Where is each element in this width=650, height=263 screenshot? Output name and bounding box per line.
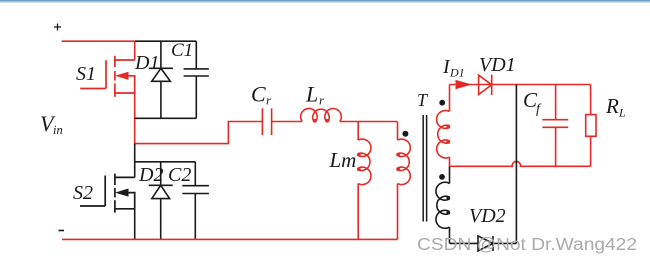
svg-text:D1: D1 [134, 52, 159, 74]
svg-text:Lm: Lm [329, 148, 357, 172]
wire Cr to Lr [272, 121, 303, 123]
wire S1 source to midpoint node [134, 93, 136, 144]
wire Lr to primary [340, 121, 398, 123]
svg-text:VD2: VD2 [469, 205, 506, 227]
transistor S2 [80, 174, 135, 213]
svg-text:CSDN @Not Dr.Wang422: CSDN @Not Dr.Wang422 [417, 234, 637, 254]
svg-text:C1: C1 [171, 40, 193, 61]
transformer T secondary bottom polarity dot [439, 174, 445, 180]
svg-text:C2: C2 [168, 164, 191, 186]
resistor RL [586, 85, 596, 167]
wire center tap rail with crossover hop [450, 161, 591, 166]
wire S1 drain [134, 41, 136, 60]
wire VD2 cathode riser [515, 85, 517, 244]
wire D1/C1 bottom bar [135, 117, 197, 119]
diode D1 [149, 41, 173, 118]
label Vin [40, 111, 63, 137]
wire bottom rail red [62, 238, 398, 240]
transformer T primary polarity dot [402, 131, 408, 137]
capacitor Cf [542, 85, 568, 167]
transformer T core [423, 115, 426, 222]
transformer T secondary top polarity dot [439, 100, 445, 106]
label ID1 [442, 56, 465, 80]
label Cf [523, 88, 542, 117]
node + (positive input terminal) [54, 24, 61, 31]
svg-text:C: C [251, 82, 266, 107]
capacitor C1 [184, 41, 209, 118]
svg-text:L: L [305, 82, 318, 107]
svg-text:S1: S1 [76, 63, 96, 85]
wire S2 source to bottom rail [134, 209, 136, 240]
node - (negative input terminal) [59, 230, 65, 232]
svg-text:D2: D2 [138, 164, 163, 186]
wire VD2 bottom [450, 242, 479, 244]
capacitor C2 [182, 162, 209, 240]
capacitor Cr [262, 108, 271, 135]
wire top rail black (to D1/C1) [135, 40, 197, 42]
inductor Lr [301, 108, 342, 122]
diode D2 [149, 162, 173, 240]
wire top rail red (+ to S1 drain branch) [62, 40, 135, 42]
svg-text:in: in [53, 123, 63, 137]
diode VD2 [478, 236, 516, 251]
transformer T primary winding [396, 122, 410, 240]
label Cr [251, 82, 272, 108]
transformer T secondary bottom winding [436, 166, 450, 243]
label Lr [305, 82, 325, 108]
transistor S1 [80, 56, 135, 97]
label RL [605, 94, 626, 120]
svg-text:D1: D1 [449, 66, 465, 80]
wire midpoint node to resonant tank [135, 122, 263, 144]
svg-text:VD1: VD1 [479, 54, 516, 76]
wire S2 drain (midpoint down) [134, 144, 136, 178]
wire D2/C2 top bar [135, 161, 196, 163]
svg-text:S2: S2 [73, 182, 93, 204]
svg-text:L: L [618, 106, 626, 120]
svg-text:R: R [605, 94, 619, 118]
diode VD1 [479, 75, 492, 96]
wire secondary top to VD1 (output top rail) [450, 84, 591, 86]
current arrow ID1 [456, 80, 472, 89]
transformer T secondary top winding [437, 85, 451, 167]
inductor Lm [357, 122, 371, 240]
